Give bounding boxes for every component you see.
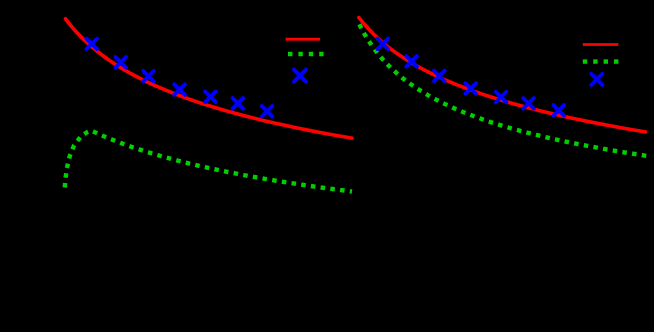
right legend blue x [591, 74, 602, 85]
right panel blue x markers [378, 39, 565, 116]
right panel green dotted curve [359, 24, 647, 156]
left legend blue x [294, 70, 306, 82]
right panel red solid curve [359, 18, 646, 132]
left panel green dotted curve [65, 131, 352, 192]
right legend red line [583, 43, 619, 46]
right legend green dotted line [583, 59, 619, 63]
left legend green dotted line [288, 52, 324, 56]
left panel red solid curve [66, 19, 353, 138]
left panel blue x markers [86, 39, 272, 117]
left legend red line [286, 38, 321, 41]
